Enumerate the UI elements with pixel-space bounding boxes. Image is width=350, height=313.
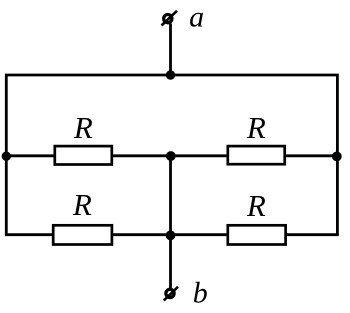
svg-text:b: b — [193, 276, 208, 309]
node: junction top center — [166, 70, 175, 79]
wire: row 1 horizontal — [5, 154, 339, 157]
node: junction row1 left — [2, 152, 11, 161]
resistor R (top-right) — [228, 146, 285, 164]
node: junction row1 center — [166, 151, 176, 161]
wire: terminal a lead — [169, 24, 172, 77]
svg-text:R: R — [246, 110, 266, 145]
svg-text:R: R — [246, 188, 266, 223]
terminal b symbol — [164, 287, 178, 301]
wire: row 2 horizontal — [5, 233, 339, 236]
resistor R (bottom-right) — [228, 225, 286, 244]
wire: outer loop (top bus with left and right vertical buses) — [6, 75, 337, 235]
resistor R (bottom-left) — [53, 225, 112, 244]
wire: center vertical between row 1 and row 2 — [169, 156, 172, 235]
svg-text:R: R — [72, 187, 92, 222]
node: junction row1 right — [332, 152, 342, 162]
resistor R (top-left) — [55, 146, 112, 164]
svg-text:a: a — [189, 1, 204, 34]
node: junction row2 center — [166, 231, 176, 241]
wire: terminal b lead — [169, 235, 172, 289]
svg-text:R: R — [73, 110, 93, 145]
terminal a symbol — [162, 11, 178, 26]
